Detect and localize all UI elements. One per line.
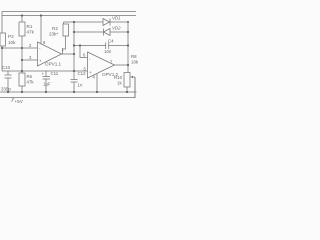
wire inverting input OPV1.1 <box>2 47 38 49</box>
svg-text:R10: R10 <box>114 75 123 80</box>
svg-text:R1: R1 <box>27 24 33 29</box>
svg-text:10k: 10k <box>131 60 139 65</box>
node row3 x128 <box>127 44 129 46</box>
node OPV1.1 pin8 on bus B <box>40 14 42 16</box>
potentiometer R10 <box>124 73 135 99</box>
node R6 bottom <box>21 91 23 93</box>
label C11 plus 1uF <box>42 71 59 87</box>
svg-text:10n: 10n <box>104 49 112 54</box>
node P2 wiper junction <box>1 47 3 49</box>
node row1 x128 <box>127 21 129 23</box>
wire vertical node x22 <box>21 48 23 71</box>
node x22 bottom <box>21 70 23 72</box>
node R10 bottom <box>126 91 128 93</box>
svg-text:1µF: 1µF <box>43 82 51 87</box>
label R1 47k <box>27 24 35 35</box>
label P2 10k <box>8 34 16 45</box>
wire non-inverting input OPV1.1 <box>22 59 38 61</box>
diode VD1 <box>103 19 110 26</box>
svg-text:C4: C4 <box>108 39 114 44</box>
op-amp U1 OPV1.1 <box>38 16 62 67</box>
label C12 1n <box>78 71 87 88</box>
svg-text:4: 4 <box>93 75 96 80</box>
svg-text:VD2: VD2 <box>112 26 121 31</box>
svg-text:+: + <box>39 58 42 63</box>
capacitor C4 <box>106 43 109 50</box>
node output OPV1.2 <box>127 64 129 66</box>
wire diode row 2 <box>74 31 128 33</box>
label C10 330p <box>1 65 11 92</box>
node row1 x74 <box>73 21 75 23</box>
wire bottom feedback line <box>0 77 135 98</box>
capacitor C10 <box>5 71 12 92</box>
ground rail (bottom) <box>0 91 137 93</box>
wire bus B (lower horizontal rail) <box>2 15 136 17</box>
wire bottom node (to + input OPV1.2) <box>2 70 88 72</box>
capacitor C11 <box>43 71 51 92</box>
opamp input polarity marks OPV1.2 <box>89 57 92 75</box>
node R1 bottom / inverting input <box>21 47 23 49</box>
opamp input polarity marks OPV1.1 <box>39 46 42 63</box>
svg-text:C10: C10 <box>2 65 11 70</box>
node row3 branch x80 <box>79 44 81 46</box>
node non-inverting input <box>21 59 23 61</box>
supply arrow +5V <box>12 98 14 102</box>
svg-text:P2: P2 <box>8 34 14 39</box>
wire vertical node x74 <box>73 22 75 71</box>
svg-text:2: 2 <box>29 43 32 48</box>
label R8 10k <box>131 54 139 65</box>
node output OPV1.1 <box>73 53 75 55</box>
junction dots <box>1 14 129 93</box>
diode VD2 <box>104 29 111 36</box>
op-amp U2 OPV1.2 <box>88 52 115 78</box>
label C4 10n <box>104 39 114 55</box>
svg-text:330p: 330p <box>1 87 11 92</box>
svg-text:10k: 10k <box>8 40 16 45</box>
svg-text:+: + <box>42 72 45 77</box>
resistor R1 <box>19 16 25 49</box>
svg-text:VD1: VD1 <box>112 16 121 21</box>
svg-text:OPV1.1: OPV1.1 <box>45 62 62 67</box>
svg-text:R6: R6 <box>27 74 33 79</box>
svg-text:R8: R8 <box>131 54 137 59</box>
svg-text:C12: C12 <box>78 71 87 76</box>
node row3 x74 <box>73 44 75 46</box>
svg-text:C11: C11 <box>51 71 59 76</box>
svg-text:8: 8 <box>43 40 46 45</box>
node row2 x74 <box>73 31 75 33</box>
svg-text:R2: R2 <box>52 26 58 31</box>
resistor R2 <box>63 22 69 54</box>
wire to inverting input OPV1.2 <box>80 46 88 58</box>
label R10 1k <box>114 75 123 86</box>
svg-text:23k*: 23k* <box>49 32 58 37</box>
wire bus A (upper horizontal) <box>2 12 136 34</box>
node C12 top <box>73 70 75 72</box>
wire supply pin 4 OPV1.2 <box>96 74 98 92</box>
node row2 x128 <box>127 31 129 33</box>
wire diode row 1 <box>64 21 129 23</box>
node C10 bottom <box>7 91 9 93</box>
wire vertical node x128 <box>127 22 129 73</box>
svg-text:3: 3 <box>29 55 32 60</box>
svg-text:+5V: +5V <box>15 99 24 104</box>
label R6 47k <box>27 74 35 85</box>
wire C4 row <box>74 45 128 47</box>
node C12 bottom <box>73 91 75 93</box>
wire output OPV1.2 <box>115 64 129 66</box>
wire output OPV1.1 <box>62 53 75 55</box>
svg-text:47k: 47k <box>27 80 35 85</box>
node R1 top on bus B <box>21 14 23 16</box>
svg-text:1k: 1k <box>117 81 122 86</box>
potentiometer P2 <box>0 33 6 71</box>
svg-text:6: 6 <box>83 53 86 58</box>
node pin4 ground <box>96 91 98 93</box>
capacitor C12 <box>71 71 78 92</box>
svg-text:1: 1 <box>62 47 65 52</box>
node C11 bottom <box>45 91 47 93</box>
svg-text:47k: 47k <box>27 30 35 35</box>
svg-text:1n: 1n <box>78 83 83 88</box>
label R2 23k* <box>49 26 58 37</box>
resistor R6 <box>19 71 25 92</box>
